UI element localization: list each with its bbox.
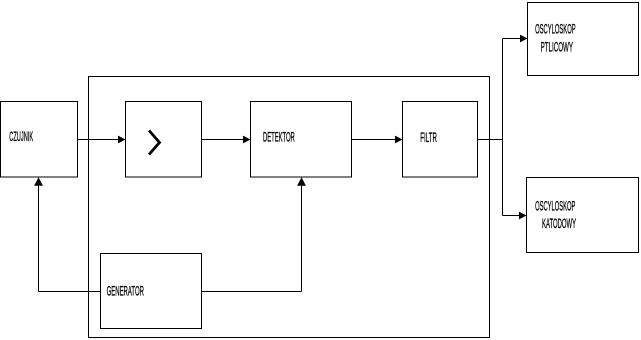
wire FILTR output horizontal [478,139,503,141]
block FILTR [403,102,478,178]
svg-text:GENERATOR: GENERATOR [107,284,144,300]
wire amplifier to DETEKTOR [202,139,250,141]
svg-text:DETEKTOR: DETEKTOR [263,130,295,146]
wire CZUJNIK to amplifier [78,139,125,141]
arrowhead into FILTR [395,136,403,144]
arrowhead into OSCYLOSKOP PTLICOWY [520,35,528,43]
arrowhead into DETEKTOR bottom [297,177,306,186]
arrowhead into amplifier [118,136,126,144]
svg-text:FILTR: FILTR [420,130,437,146]
svg-text:OSCYLOSKOP: OSCYLOSKOP [535,22,576,38]
svg-text:PTLICOWY: PTLICOWY [541,40,573,56]
block OSCYLOSKOP PTLICOWY [528,3,639,76]
wire branch to OSCYLOSKOP PTLICOWY [503,38,527,40]
arrowhead into CZUJNIK bottom [34,177,43,186]
block CZUJNIK (sensor) [1,102,78,178]
svg-text:OSCYLOSKOP: OSCYLOSKOP [535,199,575,215]
wire GENERATOR feedback vertical to CZUJNIK [38,185,40,292]
wire GENERATOR left horizontal [39,291,101,293]
svg-text:KATODOWY: KATODOWY [542,216,576,232]
arrowhead into DETEKTOR [243,136,251,144]
wire GENERATOR right horizontal [202,291,302,293]
outer enclosure rectangle [89,77,490,338]
arrowhead into OSCYLOSKOP KATODOWY [519,212,527,220]
block GENERATOR [101,254,202,329]
block amplifier > [126,102,202,178]
svg-text:CZUJNIK: CZUJNIK [9,129,33,145]
wire branch to OSCYLOSKOP KATODOWY [503,215,526,217]
amplifier > symbol [149,131,160,155]
wire branch vertical [502,39,504,216]
wire GENERATOR vertical to DETEKTOR [301,185,303,292]
block OSCYLOSKOP KATODOWY [527,178,639,253]
block DETEKTOR [251,102,352,178]
wire DETEKTOR to FILTR [352,139,402,141]
